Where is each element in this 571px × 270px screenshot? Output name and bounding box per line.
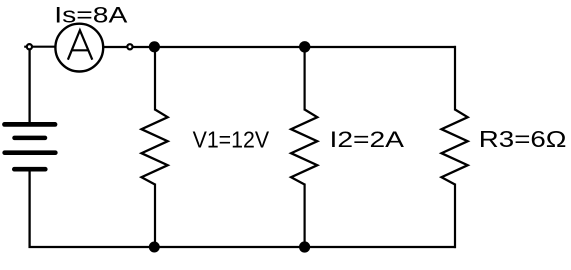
wire: left vertical from terminal down to battery positive (28, 47, 30, 123)
ammeter letter A (68, 30, 92, 60)
resistor R3 (R3=6Ω) zigzag (442, 110, 468, 185)
terminal: open circle left of ammeter (27, 44, 32, 49)
resistor R2 zigzag (291, 110, 317, 185)
svg-text:Is=8A: Is=8A (54, 2, 127, 27)
resistor R1 zigzag (142, 110, 168, 185)
battery plate long (5, 150, 56, 155)
resistor R2 (I2=2A) top lead (304, 46, 306, 111)
wire: R3 bottom lead to bottom-right corner (454, 184, 456, 249)
junction node: top of R1 (149, 41, 160, 52)
svg-text:I2=2A: I2=2A (330, 127, 405, 152)
battery plate short (bottom) (14, 167, 45, 172)
junction node: top of R2 (299, 41, 310, 52)
wire: bottom return wire (29, 246, 457, 248)
wire: battery negative down to bottom-left corner (28, 170, 30, 248)
svg-text:R3=6Ω: R3=6Ω (479, 126, 567, 152)
battery B1 (5, 124, 56, 169)
terminal: open circle right of ammeter (127, 44, 132, 49)
junction node: bottom of R2 (299, 241, 310, 252)
battery plate long (top) (5, 122, 56, 127)
resistor R2 bottom lead (304, 184, 306, 249)
ammeter U1 (55, 24, 103, 72)
wire: right branch vertical (R3 top lead from corner) (454, 46, 456, 111)
wire: top-left terminal to ammeter left (24, 46, 55, 48)
battery plate short (15, 136, 46, 141)
resistor R1 bottom lead (154, 184, 156, 249)
resistor R1 (V1=12V) top lead (154, 46, 156, 111)
wire: ammeter right to top node A (104, 46, 456, 48)
svg-text:V1=12V: V1=12V (193, 126, 270, 152)
junction node: bottom of R1 (149, 242, 160, 253)
